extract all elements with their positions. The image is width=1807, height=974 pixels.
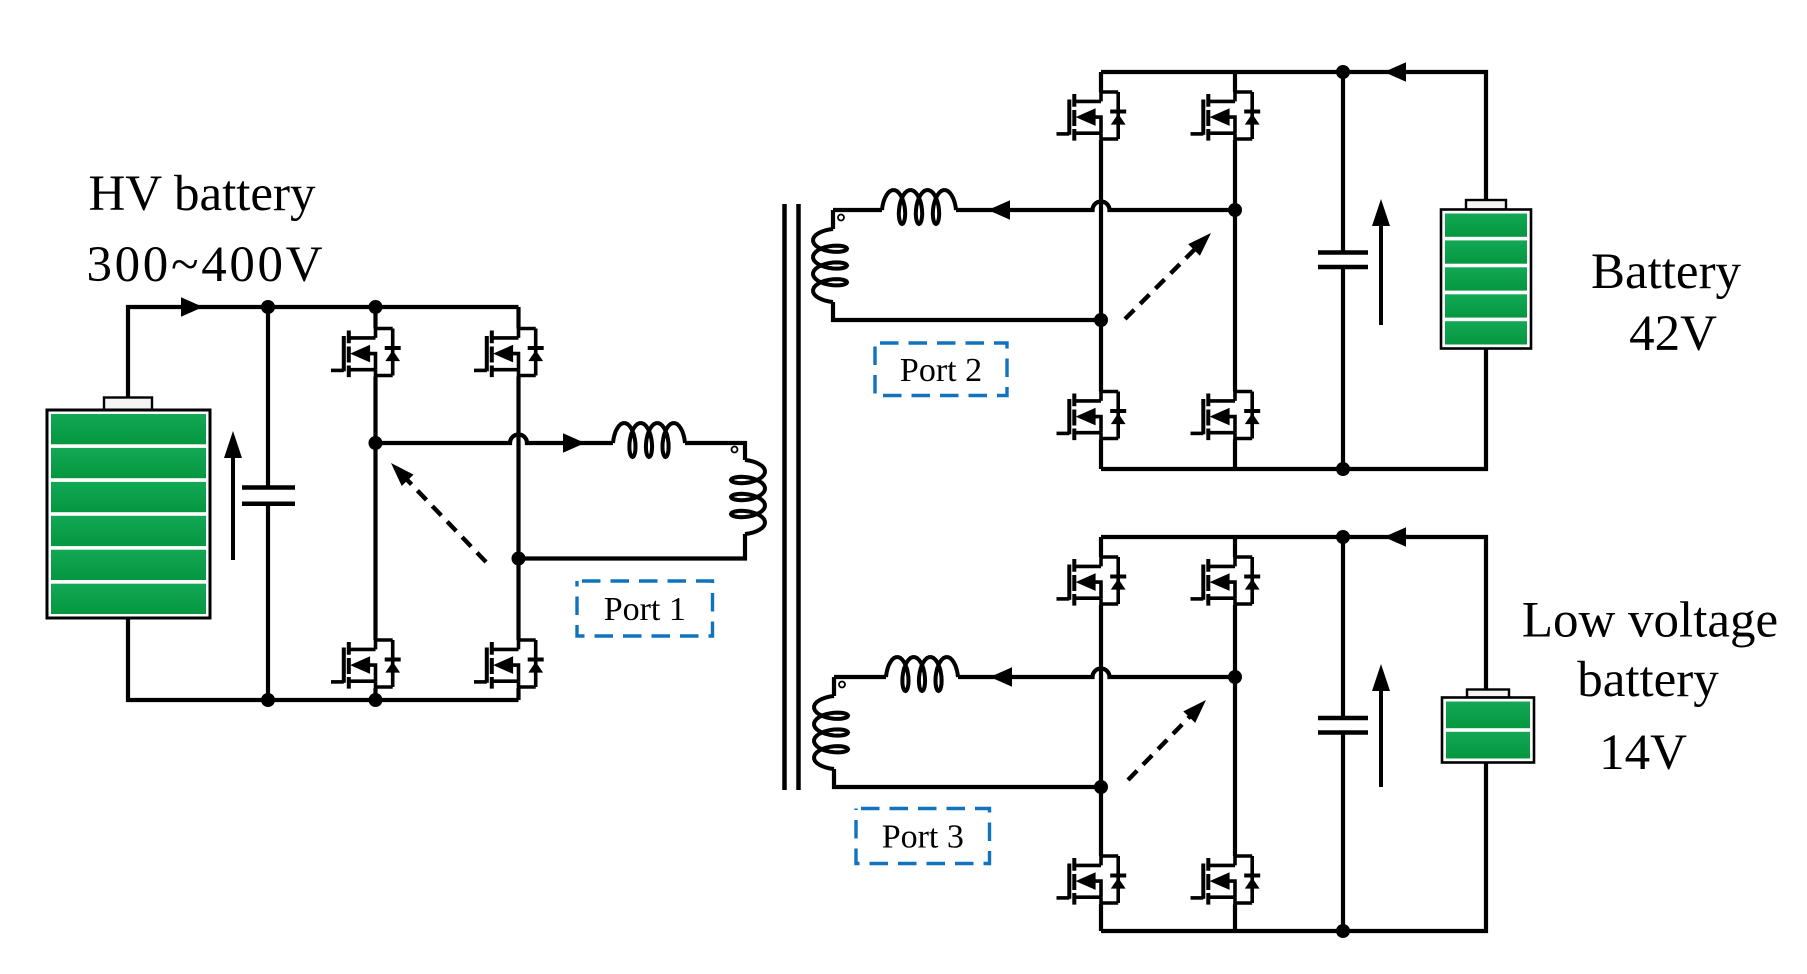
dashed power-flow arrow bridge2 <box>1125 247 1197 319</box>
bridge2 right leg <box>1233 72 1237 469</box>
svg-text:42V: 42V <box>1629 306 1717 362</box>
bridge1 left leg <box>373 307 377 700</box>
battery green bar B2-5 <box>1445 321 1527 344</box>
transistor Q10 <box>1191 557 1261 606</box>
transistor Q2 <box>474 329 544 378</box>
bottom bus bridge2 <box>1101 349 1486 470</box>
current arrow up (HV battery) <box>231 456 235 560</box>
bridge3 left leg <box>1099 537 1103 931</box>
arrow current into bridge1 <box>181 297 203 317</box>
arrow current into bridge3 top bus <box>1384 527 1406 547</box>
Port 2 dashed box <box>875 343 1007 396</box>
transformer winding W2 <box>813 229 847 302</box>
arrow on Port1 wire <box>563 433 585 453</box>
wire bottom bus bridge1 <box>128 618 519 700</box>
arrow on Port3 wire <box>990 667 1012 687</box>
winding W1 polarity dot <box>732 447 738 453</box>
junction dot bridge1 mid left <box>369 436 383 450</box>
svg-text:14V: 14V <box>1599 725 1687 781</box>
battery green bar B2-4 <box>1445 294 1527 317</box>
bottom bus bridge3 <box>1101 763 1486 932</box>
dashed power-flow arrow bridge1 <box>405 477 486 562</box>
top bus bridge3 <box>1101 537 1486 690</box>
transistor Q5 <box>1057 92 1127 141</box>
current arrow up bridge2 <box>1379 226 1383 325</box>
inductor L2 <box>882 190 956 224</box>
bridge3 right leg <box>1233 537 1237 931</box>
winding W2 polarity dot <box>838 215 844 221</box>
transistor Q8 <box>1191 392 1261 441</box>
bridge2 left leg <box>1099 72 1103 469</box>
Port 3 dashed box <box>856 809 990 864</box>
battery green bar HV-4 <box>51 516 206 546</box>
battery green bar B2-2 <box>1445 240 1527 263</box>
transistor Q12 <box>1191 856 1261 905</box>
battery green bar HV-2 <box>51 448 206 478</box>
top bus bridge2 <box>1101 72 1486 200</box>
battery green bar HV-1 <box>51 414 206 444</box>
svg-text:Low voltage: Low voltage <box>1522 593 1778 649</box>
battery green bar B2-1 <box>1445 214 1527 237</box>
svg-text:HV battery: HV battery <box>88 166 316 222</box>
wire winding3 top / mid wire <box>834 669 1235 678</box>
inductor L1 <box>613 423 685 457</box>
transformer core lines <box>785 204 799 790</box>
junction dot cap C2 top <box>1336 65 1350 79</box>
transformer primary winding W1 <box>731 460 765 534</box>
transistor Q3 <box>331 640 401 689</box>
transistor Q7 <box>1057 392 1127 441</box>
svg-text:300~400V: 300~400V <box>87 237 323 293</box>
svg-text:Port 1: Port 1 <box>604 591 686 628</box>
wire bridge1 midpoint to inductor L1 <box>376 435 746 460</box>
junction dot bridge3 mid right <box>1228 670 1242 684</box>
junction dot bridge2 mid right <box>1228 203 1242 217</box>
capacitor C2 <box>1341 72 1345 469</box>
junction dot bridge3 winding return <box>1094 780 1108 794</box>
capacitor C1 plates <box>242 488 295 504</box>
battery terminal cap B2 <box>1466 200 1506 210</box>
transformer winding W3 <box>814 696 848 769</box>
battery terminal cap B3 <box>1467 690 1509 698</box>
svg-text:Port 3: Port 3 <box>882 819 964 856</box>
transistor Q9 <box>1057 557 1127 606</box>
junction dot cap C1 bottom <box>261 693 275 707</box>
capacitor C1 bottom lead <box>266 504 270 700</box>
wire winding2 top / mid wire <box>833 202 1235 211</box>
junction dot left leg bottom b1 <box>369 693 383 707</box>
junction dot cap C3 bottom <box>1336 924 1350 938</box>
junction dot cap C3 top <box>1336 530 1350 544</box>
battery green bar HV-5 <box>51 550 206 580</box>
svg-text:Port 2: Port 2 <box>900 352 982 389</box>
current arrow up bridge3 <box>1379 691 1383 787</box>
capacitor C3 <box>1341 537 1345 931</box>
inductor L3 <box>886 657 958 691</box>
wire top bus bridge1 <box>128 307 519 398</box>
dashed power-flow arrow bridge3 <box>1128 714 1192 780</box>
battery body B2 <box>1441 210 1531 349</box>
battery terminal cap HV <box>104 398 152 411</box>
capacitor C1 top lead <box>266 307 270 488</box>
transistor Q1 <box>331 329 401 378</box>
junction dot bridge1 mid right <box>512 552 526 566</box>
winding W3 corners <box>834 677 1101 787</box>
Port 1 dashed box <box>577 581 713 636</box>
battery green bar B3-2 <box>1446 732 1530 759</box>
battery body HV <box>47 410 210 618</box>
battery body B3 <box>1442 698 1534 763</box>
battery green bar HV-3 <box>51 482 206 512</box>
transistor Q6 <box>1191 92 1261 141</box>
battery green bar B2-3 <box>1445 267 1527 290</box>
bridge1 right leg <box>516 307 520 700</box>
arrow current into bridge2 top bus <box>1384 62 1406 82</box>
battery green bar B3-1 <box>1446 702 1530 729</box>
transistor Q4 <box>474 640 544 689</box>
arrow on Port2 wire <box>988 200 1010 220</box>
winding W2 corners <box>833 210 1101 320</box>
svg-text:battery: battery <box>1577 652 1719 708</box>
junction dot cap C2 bottom <box>1336 462 1350 476</box>
junction dot cap C1 top <box>261 300 275 314</box>
wire W1 bottom to bridge1 right midpoint <box>519 534 746 559</box>
transistor Q11 <box>1057 856 1127 905</box>
junction dot left leg top b1 <box>369 300 383 314</box>
battery green bar HV-6 <box>51 584 206 614</box>
svg-text:Battery: Battery <box>1591 244 1742 300</box>
winding W3 polarity dot <box>839 682 845 688</box>
junction dot bridge2 winding return <box>1094 313 1108 327</box>
